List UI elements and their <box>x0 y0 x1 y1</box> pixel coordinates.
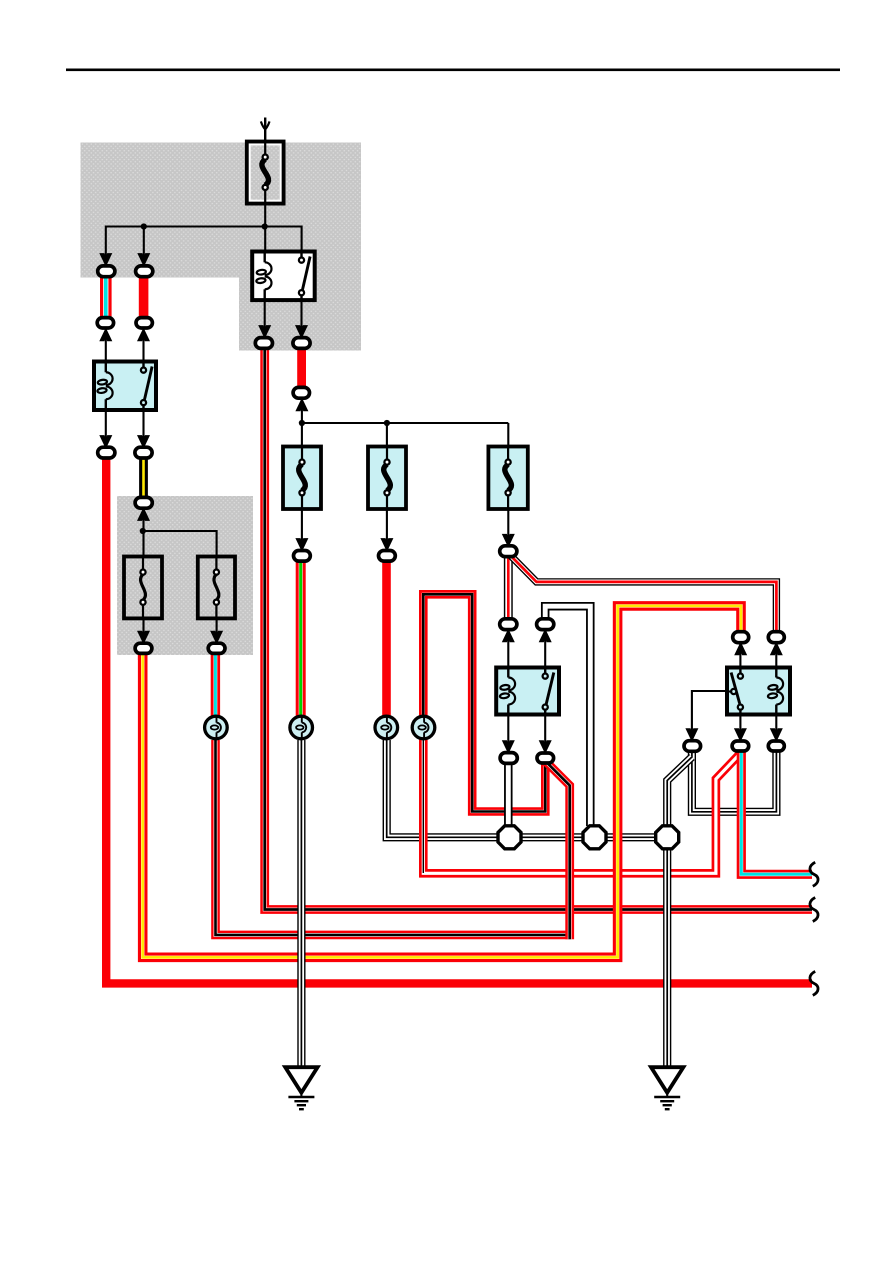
junction node A1 <box>141 223 147 229</box>
node N3 <box>656 826 679 849</box>
connector C13 <box>294 551 311 562</box>
wire relay R1 switch output <box>300 299 302 337</box>
wire fuse F7 output <box>216 618 218 643</box>
connector C1 <box>98 266 115 277</box>
wire relay R2 coil output <box>105 410 107 447</box>
fuse F7 <box>198 557 235 619</box>
connector C23 <box>732 741 749 751</box>
fuse F4 tail fuse <box>368 447 406 510</box>
arrow into C22 <box>687 729 698 740</box>
wire fuse F4 output <box>386 509 388 551</box>
connector C9 <box>135 447 152 458</box>
connector C3 <box>97 318 113 328</box>
connector C4 <box>136 318 152 328</box>
connector C19 <box>768 632 784 643</box>
wire R-B main feed to rear <box>265 349 812 910</box>
wire connector C4 to relay R2 switch <box>142 330 144 362</box>
node N2 <box>583 826 606 849</box>
wire branch to fuse F5 <box>507 423 509 447</box>
node N1 <box>498 826 521 849</box>
wire R-G to bulb B2 <box>296 562 306 716</box>
wire rail node B to fuses F3 F4 F5 <box>302 422 508 424</box>
arrow into C8 <box>100 436 111 447</box>
arrow into C23 <box>735 729 746 740</box>
fuse F3 tail fuse <box>283 447 321 510</box>
arrow into C1 <box>100 254 111 265</box>
wire R-B relay R3 switch to bulb B1 <box>545 761 569 939</box>
connector C14 <box>379 551 396 562</box>
wire relay R3 coil output <box>507 714 509 753</box>
connector C11 <box>135 643 152 653</box>
bulb B2 tail lamp <box>290 715 313 740</box>
connector C17 <box>537 619 554 630</box>
connector C5 <box>255 338 272 349</box>
wire thick R to bulb B3 <box>382 562 391 716</box>
wire battery feed into fuse F1 <box>264 118 266 142</box>
wire relay R4 tap to connector C22 <box>692 691 740 741</box>
arrow into C6 <box>296 326 307 337</box>
shaded area: junction block 2 <box>117 496 253 655</box>
wire thick R stub C2 to C4 <box>139 276 149 317</box>
wire thick R relay R1 switch to C7 <box>297 348 306 388</box>
arrow into C2 <box>138 254 149 265</box>
wire R-B bulb B1 return <box>216 740 571 935</box>
arrow into C13 <box>297 539 308 550</box>
break to harness 3 <box>810 971 818 995</box>
arrow into C4 <box>138 329 149 340</box>
wire R-C stub C1 to C3 <box>100 276 112 317</box>
connector C10 <box>135 497 152 508</box>
wire relay R1 coil output <box>264 299 266 337</box>
relay R1 main relay <box>252 252 315 301</box>
arrow into C18 <box>735 643 746 654</box>
wire connector C16 to relay R3 coil <box>507 631 509 668</box>
arrow into C20 <box>503 741 514 752</box>
wire W connector C17 to node N2 <box>545 606 590 826</box>
connector C2 <box>136 266 153 277</box>
relay R3 relay <box>496 668 559 715</box>
wire W-B connector C22 to ground G2 <box>667 757 692 1068</box>
ground G2 <box>651 1067 683 1109</box>
wire connector C19 to relay R4 coil <box>775 644 777 668</box>
wire fuse F5 output <box>507 509 509 547</box>
wire W-B bus bulb B3 to node N3 <box>387 740 667 837</box>
arrow source arrowhead <box>261 121 270 129</box>
wire W-R fuse F5 to connector C16 <box>504 557 513 618</box>
wire connector C17 to relay R3 switch <box>544 631 546 668</box>
connector C7 <box>293 387 309 398</box>
wire connector C7 to fuse rail node B <box>301 400 303 424</box>
connector C16 <box>500 619 517 630</box>
wire fuse F6 output <box>142 618 144 643</box>
wire R-Y long feed to relay R4 <box>143 606 741 957</box>
bulb B4 tail lamp RH <box>412 715 435 740</box>
wire relay R4 switch output <box>739 714 741 753</box>
arrow into C14 <box>382 539 393 550</box>
junction node C <box>140 528 146 534</box>
junction node B2 <box>384 420 390 426</box>
fuse F6 <box>124 557 162 619</box>
wire connector C3 to relay R2 coil <box>105 330 107 362</box>
wire W-R fuse F5 to relay R4 coil <box>511 556 777 633</box>
break to harness 2 <box>810 898 818 922</box>
wire W-B loop connector C22 to C24 <box>692 752 777 812</box>
shaded area: engine compartment block <box>81 143 362 351</box>
wire connector C18 to relay R4 switch <box>739 644 741 668</box>
arrow into C21 <box>540 741 551 752</box>
junction node A2 <box>262 223 268 229</box>
relay R2 taillight relay <box>94 362 156 411</box>
arrow into C3 <box>100 329 111 340</box>
wire thick R battery feed bus <box>106 459 812 983</box>
wire B-Y stub C9 to C10 <box>139 458 148 497</box>
connector C21 <box>537 753 554 763</box>
arrow into C9 <box>138 436 149 447</box>
connector C24 <box>768 741 784 751</box>
wire fuse F1 to bus node A rail <box>264 202 266 252</box>
arrow into C16 <box>503 630 514 641</box>
wire connector C10 to junction node C <box>142 510 144 557</box>
wire relay R4 coil output <box>775 714 777 753</box>
arrow into C5 <box>259 326 270 337</box>
arrow into C15 <box>503 535 514 546</box>
bulb B3 tail lamp <box>375 715 398 740</box>
wire W connector C20 to node N1 <box>504 764 513 826</box>
wire W-B bulb B2 to ground G1 <box>297 740 305 1068</box>
connector C18 <box>733 632 749 643</box>
arrow into C12 <box>211 631 222 642</box>
arrow into C17 <box>540 630 551 641</box>
wire relay R2 switch output <box>142 410 144 447</box>
arrow into C11 <box>138 631 149 642</box>
connector C22 <box>684 741 701 752</box>
arrow into C7 <box>297 399 308 410</box>
ground G1 <box>285 1067 317 1109</box>
relay R4 relay <box>725 668 790 715</box>
wire R-C connector C23 to right taillight <box>741 752 812 874</box>
wire R-C to bulb B1 <box>211 654 220 716</box>
connector C12 <box>208 643 225 653</box>
wire fuse F3 output <box>301 509 303 551</box>
connector C6 <box>293 338 310 349</box>
junction node B1 <box>299 420 305 426</box>
wire branch to fuse F4 <box>386 423 388 447</box>
bulb B1 tail lamp LH <box>205 715 228 740</box>
connector C20 <box>500 753 517 764</box>
wire node C branch to fuse F7 <box>143 531 217 557</box>
connector C8 <box>98 447 115 458</box>
top rule <box>66 69 840 72</box>
wire R-Y fuse F6 output <box>138 653 148 660</box>
wire R-B loop through bulb B4 <box>423 594 740 873</box>
wire relay R3 switch output <box>544 714 546 753</box>
fuse F5 tail fuse <box>488 447 527 510</box>
arrow into C24 <box>771 729 782 740</box>
wire rail node A horizontal <box>106 227 302 266</box>
fuse F1 main <box>247 142 284 204</box>
connector C15 <box>500 546 517 557</box>
arrow into C19 <box>771 643 782 654</box>
wire branch to connector C2 <box>143 227 145 266</box>
break to harness 1 <box>810 862 818 886</box>
arrow into C10 <box>138 509 149 520</box>
